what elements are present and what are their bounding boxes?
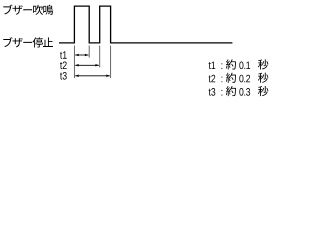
waveform buzzer pulse train (59, 6, 232, 43)
dimension arrow t2 (75, 64, 99, 67)
extension line at first falling edge (88, 46, 90, 58)
dimension label t2 (60, 61, 67, 69)
dimension arrow t3 (75, 75, 110, 78)
extension line at second falling edge (110, 46, 112, 78)
dimension label t3 (60, 72, 67, 80)
legend row t3 = approx 0.3 s (209, 86, 269, 96)
label buzzer-off (ブザー停止) (3, 37, 53, 47)
dimension label t1 (60, 51, 67, 59)
extension line at first rising edge (73, 46, 75, 79)
dimension arrow t1 (75, 54, 88, 57)
extension line at second rising edge (99, 46, 101, 68)
label buzzer-on (ブザー吹鳴) (3, 5, 53, 15)
legend row t1 = approx 0.1 s (209, 59, 269, 69)
legend row t2 = approx 0.2 s (209, 73, 269, 83)
